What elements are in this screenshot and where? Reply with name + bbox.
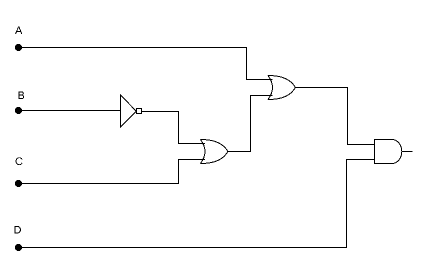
inverter U1 — [121, 95, 142, 127]
wire A to OR2 top input — [18, 48, 273, 80]
node D — [15, 244, 22, 251]
wire OR2 output to AND top input — [296, 88, 375, 145]
wire AND output — [402, 151, 413, 153]
node B — [15, 107, 22, 114]
or-gate U2 — [201, 140, 229, 164]
node A — [15, 44, 22, 51]
node C — [15, 180, 22, 187]
or-gate U3 — [268, 76, 296, 100]
input label B — [18, 91, 24, 99]
and-gate U4 — [375, 140, 402, 164]
input label A — [15, 26, 22, 34]
wire B to inverter input — [18, 110, 121, 112]
input label D — [14, 226, 21, 234]
wire OR1 output to OR2 bottom input — [228, 96, 273, 152]
wire D to AND bottom input — [18, 160, 375, 248]
input label C — [16, 157, 23, 165]
wire inverter output to OR1 top input — [142, 112, 206, 144]
wire C to OR1 bottom input — [18, 160, 205, 184]
